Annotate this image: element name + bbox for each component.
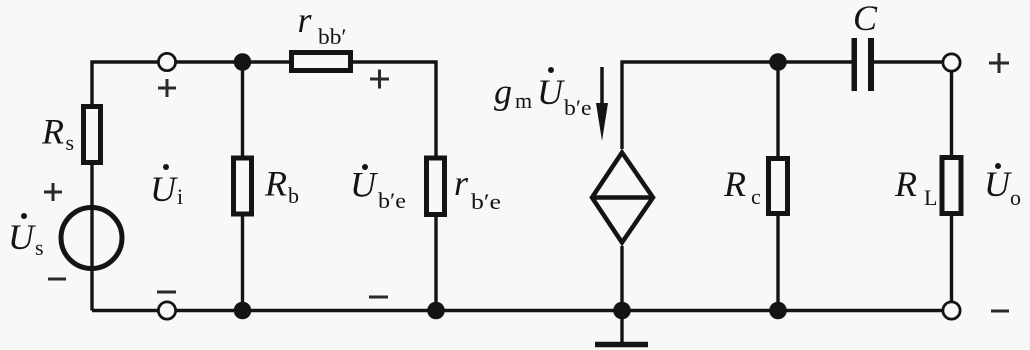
svg-text:b′e: b′e [378,188,406,213]
svg-text:R: R [41,112,64,152]
svg-text:b′e: b′e [564,95,592,120]
svg-text:C: C [853,0,878,38]
svg-text:U: U [350,165,378,205]
svg-text:b′e: b′e [471,189,501,214]
svg-text:U: U [8,217,36,257]
svg-text:s: s [35,235,44,260]
svg-text:s: s [66,130,75,155]
svg-text:U: U [150,169,178,209]
svg-text:b: b [288,183,299,208]
svg-text:bb′: bb′ [318,24,347,49]
svg-text:U: U [984,164,1012,204]
svg-text:U: U [537,72,565,112]
svg-text:i: i [177,184,183,209]
svg-text:r: r [454,163,469,203]
svg-text:R: R [723,164,746,204]
svg-text:R: R [264,164,287,204]
svg-text:m: m [515,88,532,113]
svg-text:c: c [751,184,761,209]
svg-text:g: g [494,72,512,112]
svg-text:r: r [298,0,313,40]
svg-text:R: R [894,164,917,204]
svg-text:o: o [1010,185,1021,210]
svg-text:L: L [924,185,937,210]
